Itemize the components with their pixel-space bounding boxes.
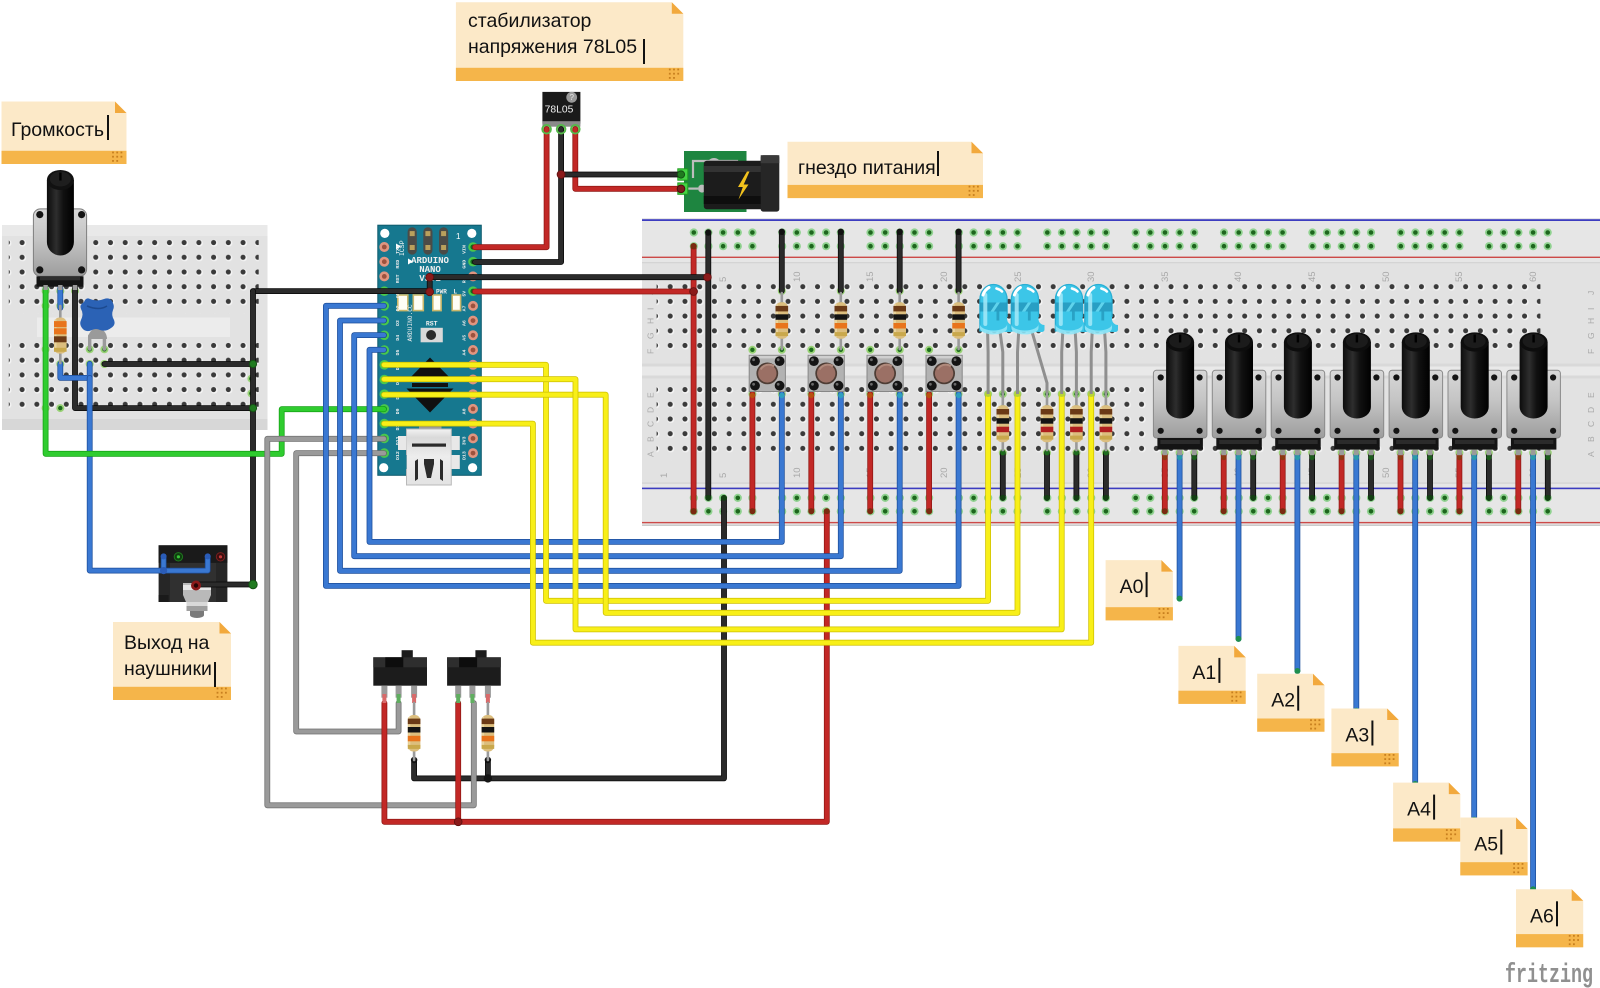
wire D2 to button4 <box>326 306 959 586</box>
wire led1 res to -rail <box>1000 453 1006 498</box>
wire 78L05 gnd to nano GND <box>475 129 561 262</box>
note стабилизатор <box>456 2 683 81</box>
wire tip A3 <box>1353 708 1359 714</box>
wire pot wiper to D9 <box>46 288 384 454</box>
svg-text:25: 25 <box>1013 271 1024 282</box>
svg-text:F: F <box>646 349 656 354</box>
wire 78L05 out to VIN <box>475 129 547 247</box>
LED D1 <box>980 285 1013 395</box>
lead resistor R11 <box>487 703 490 760</box>
resistor R4 <box>893 302 906 338</box>
wire led3 res to -rail <box>1074 453 1080 498</box>
svg-text:VIN: VIN <box>462 245 468 254</box>
wire cap gnd <box>104 361 253 367</box>
wire pot3 wiper to A2 <box>1295 455 1301 671</box>
wire D7 to led3 <box>384 379 1062 629</box>
wire button1 to +rail <box>750 394 756 511</box>
svg-text:D9: D9 <box>395 408 401 414</box>
wire switch2 feed <box>455 703 461 822</box>
wire pot1 wiper to A0 <box>1177 455 1183 599</box>
lead resistor R3 <box>839 293 842 349</box>
svg-text:1: 1 <box>659 473 670 478</box>
svg-text:A0: A0 <box>462 408 468 414</box>
lead resistor R10 <box>413 703 416 760</box>
lead resistor R2 <box>780 293 783 349</box>
wire pot1 pin3 to -rail <box>1191 455 1197 498</box>
wire D6 to led1 <box>384 365 988 601</box>
svg-text:D12: D12 <box>395 451 401 460</box>
wire pot7 wiper to A6 <box>1530 455 1536 889</box>
note A2 <box>1257 674 1324 732</box>
wire pot5 wiper to A4 <box>1412 455 1418 784</box>
wire D8 to led2 <box>384 394 1018 613</box>
svg-text:D13: D13 <box>462 451 468 460</box>
svg-text:RST: RST <box>426 321 438 328</box>
wire switch gnd bus <box>414 498 724 779</box>
wire pot1 pin1 to +rail <box>1162 455 1168 511</box>
jack sleeve ring <box>191 581 201 591</box>
resistor R9 <box>1100 405 1113 442</box>
svg-text:60: 60 <box>1528 271 1539 282</box>
resistor R3 <box>835 302 848 338</box>
wire tip A4 <box>1412 781 1418 787</box>
svg-text:J: J <box>1586 291 1596 295</box>
svg-text:D11: D11 <box>395 436 401 445</box>
note A4 <box>1393 783 1460 842</box>
svg-text:F: F <box>1586 349 1596 354</box>
svg-text:стабилизатор: стабилизатор <box>468 10 592 32</box>
note A1 <box>1178 646 1245 704</box>
wire audio out b <box>164 556 208 570</box>
svg-text:E: E <box>646 392 656 398</box>
svg-text:10: 10 <box>792 467 803 478</box>
svg-text:G: G <box>646 332 656 339</box>
svg-text:A2: A2 <box>1271 690 1295 712</box>
wire 78L05 in from jack <box>575 129 679 189</box>
voltage regulator 78L05 U2 <box>542 92 580 133</box>
wire tip A1 <box>1236 636 1242 642</box>
wire D5 to button1 <box>370 350 782 542</box>
svg-text:A: A <box>1586 451 1596 457</box>
wire pot2 wiper to A1 <box>1236 455 1242 639</box>
board labels <box>646 271 1597 478</box>
potentiometer P1 <box>1153 332 1207 455</box>
svg-text:30: 30 <box>1086 271 1097 282</box>
breadboard main <box>642 218 1600 526</box>
connected holes <box>42 287 1552 457</box>
potentiometer P4 <box>1330 332 1384 455</box>
svg-text:D2: D2 <box>395 305 401 311</box>
svg-text:A4: A4 <box>1407 799 1431 821</box>
svg-text:78L05: 78L05 <box>545 105 574 116</box>
pushbutton S1 <box>749 355 785 391</box>
svg-text:5V: 5V <box>462 291 468 297</box>
svg-text:A7: A7 <box>462 305 468 311</box>
note A3 <box>1331 709 1398 767</box>
LED D4 <box>1085 285 1118 395</box>
slide switch SW1 <box>373 650 427 703</box>
wire tip A2 <box>1294 668 1300 674</box>
resistor R2 <box>776 302 789 338</box>
svg-text:5: 5 <box>718 277 729 282</box>
junction 5V rail <box>690 288 698 296</box>
svg-text:A4: A4 <box>462 350 468 356</box>
svg-text:G: G <box>1586 332 1596 339</box>
wire tips rails <box>542 125 1551 515</box>
wire pot3 pin3 to -rail <box>1309 455 1315 498</box>
fritzing logo <box>1505 961 1593 988</box>
svg-text:B: B <box>646 436 656 442</box>
svg-text:15: 15 <box>865 271 876 282</box>
wire pot4 wiper to A3 <box>1353 455 1359 711</box>
junction gnd bus <box>426 273 711 295</box>
potentiometer P2 <box>1212 332 1266 455</box>
wire pot top blue <box>57 288 63 308</box>
wire pot2 pin1 to +rail <box>1221 455 1227 511</box>
svg-text:H: H <box>1586 318 1596 324</box>
svg-text:45: 45 <box>1307 271 1318 282</box>
svg-text:50: 50 <box>1381 467 1392 478</box>
wire button4 to +rail <box>926 394 932 511</box>
svg-text:20: 20 <box>939 467 950 478</box>
wire pot3 pin1 to +rail <box>1280 455 1286 511</box>
slide switch SW2 <box>447 650 501 703</box>
svg-text:напряжения 78L05: напряжения 78L05 <box>468 36 637 58</box>
svg-text:50: 50 <box>1381 271 1392 282</box>
wire 78L05 gnd to jack <box>561 172 679 178</box>
svg-text:Выход на: Выход на <box>124 632 210 654</box>
wire D11 to switch2 <box>267 439 474 806</box>
note A0 <box>1106 560 1173 620</box>
wire pot4 pin3 to -rail <box>1368 455 1374 498</box>
svg-text:H: H <box>646 318 656 324</box>
svg-text:E: E <box>1586 392 1596 398</box>
power rails holes <box>690 228 1552 515</box>
wire 5V to rail <box>475 289 694 295</box>
lead resistor R5 <box>957 293 960 349</box>
svg-text:RXD: RXD <box>395 260 401 269</box>
potentiometer P6 <box>1448 332 1502 455</box>
svg-text:35: 35 <box>1160 271 1171 282</box>
wire button4 pullcol to -rail <box>956 232 962 291</box>
lead resistor R6 <box>1001 394 1004 450</box>
wire audio out <box>90 378 164 571</box>
headphone jack J2 <box>159 545 228 618</box>
wire pot5 pin3 to -rail <box>1427 455 1433 498</box>
wire rail jumper black <box>705 233 711 498</box>
wire switch2 gnd stub <box>485 760 491 778</box>
svg-text:A5: A5 <box>462 335 468 341</box>
breadboard small <box>2 225 268 430</box>
resistor R10 <box>408 715 421 752</box>
note Выход на наушники <box>113 622 231 700</box>
resistor R11 <box>482 715 495 752</box>
svg-text:ARDUINO.CC: ARDUINO.CC <box>407 304 414 341</box>
wire pot2 pin3 to -rail <box>1250 455 1256 498</box>
svg-text:A6: A6 <box>1530 905 1554 927</box>
lead resistor R4 <box>898 293 901 349</box>
svg-text:A6: A6 <box>462 320 468 326</box>
wire D3 to button3 <box>340 321 900 571</box>
svg-text:40: 40 <box>1233 271 1244 282</box>
svg-text:A1: A1 <box>1192 662 1216 684</box>
wire button3 to +rail <box>867 394 873 511</box>
capacitor C1 <box>80 298 114 349</box>
note гнездо питания <box>788 142 984 198</box>
potentiometer VOLUME <box>33 170 86 290</box>
wire pot6 wiper to A5 <box>1471 455 1477 820</box>
wire GND bus to rail <box>253 277 707 291</box>
svg-text:A5: A5 <box>1474 834 1498 856</box>
junction 78L05 gnd <box>557 171 685 179</box>
pushbutton S4 <box>926 355 962 391</box>
wire D4 to button2 <box>354 335 841 556</box>
resistor R7 <box>1041 405 1054 442</box>
svg-text:3V3: 3V3 <box>462 436 468 445</box>
pushbutton S2 <box>808 355 844 391</box>
svg-text:Громкость: Громкость <box>11 119 104 141</box>
Arduino Nano U1 <box>378 225 482 485</box>
potentiometer P3 <box>1271 332 1325 455</box>
svg-text:I: I <box>1586 308 1596 310</box>
LED D3 <box>1055 285 1088 395</box>
wire pot4 pin1 to +rail <box>1339 455 1345 511</box>
svg-text:55: 55 <box>1454 271 1465 282</box>
wire D12 to switch1 <box>296 453 398 731</box>
wire button3 pullcol to -rail <box>897 232 903 291</box>
resistor R5 <box>952 302 965 338</box>
wire rail jumper red <box>691 246 697 511</box>
wire button2 pullcol to -rail <box>838 232 844 291</box>
svg-text:20: 20 <box>939 271 950 282</box>
lead resistor R8 <box>1075 394 1078 450</box>
wire led4 res to -rail <box>1103 453 1109 498</box>
wire tip A6 <box>1530 886 1536 892</box>
svg-text:5: 5 <box>718 473 729 478</box>
lead resistor R7 <box>1046 394 1049 450</box>
resistor R6 <box>997 405 1010 442</box>
junction jack red <box>677 185 685 193</box>
wire tip A5 <box>1471 817 1477 823</box>
svg-text:C: C <box>646 421 656 427</box>
svg-text:D: D <box>646 407 656 413</box>
pushbutton S3 <box>867 355 903 391</box>
wire pot5 pin1 to +rail <box>1398 455 1404 511</box>
svg-text:наушники: наушники <box>124 658 212 680</box>
wire vol divider <box>60 364 89 378</box>
wire tip A0 <box>1177 596 1183 602</box>
potentiometer P5 <box>1389 332 1443 455</box>
resistor R1 <box>54 318 67 354</box>
wire pot7 pin1 to +rail <box>1515 455 1521 511</box>
wire small board gnd drop <box>196 291 253 584</box>
svg-text:D5: D5 <box>395 350 401 356</box>
svg-text:I: I <box>646 308 656 310</box>
svg-text:A3: A3 <box>1345 725 1369 747</box>
note A5 <box>1460 818 1527 876</box>
wire button2 to +rail <box>808 394 814 511</box>
junction switch gnd <box>411 757 492 783</box>
svg-text:A: A <box>646 451 656 457</box>
wire pot7 pin3 to -rail <box>1545 455 1551 498</box>
svg-text:TX1: TX1 <box>395 245 401 254</box>
note Громкость <box>2 102 127 165</box>
svg-text:гнездо питания: гнездо питания <box>798 157 936 179</box>
wire pot6 pin3 to -rail <box>1486 455 1492 498</box>
junction smallboard <box>249 360 257 588</box>
lead resistor R9 <box>1105 394 1108 450</box>
svg-text:D4: D4 <box>395 335 401 341</box>
svg-text:B: B <box>1586 436 1596 442</box>
svg-text:C: C <box>1586 421 1596 427</box>
wire led2 res to -rail <box>1044 453 1050 498</box>
note A6 <box>1516 889 1583 947</box>
svg-text:D: D <box>1586 407 1596 413</box>
svg-text:GND: GND <box>462 260 468 269</box>
wire pot6 pin1 to +rail <box>1457 455 1463 511</box>
wire D10 to led4 <box>384 394 1091 643</box>
svg-text:D3: D3 <box>395 320 401 326</box>
power jack J1 <box>678 151 780 212</box>
svg-text:fritzing: fritzing <box>1505 961 1593 988</box>
svg-text:1: 1 <box>456 232 461 241</box>
wire button1 pullcol to -rail <box>779 232 785 291</box>
potentiometer P7 <box>1507 332 1561 455</box>
wire switch1 feed <box>384 511 826 822</box>
junction audio <box>160 553 211 574</box>
svg-text:?: ? <box>569 93 574 102</box>
junction switch red <box>454 818 462 826</box>
svg-text:A0: A0 <box>1120 576 1144 598</box>
LED D2 <box>1011 285 1047 395</box>
svg-text:10: 10 <box>792 271 803 282</box>
lead resistor R1 <box>59 306 62 363</box>
resistor R8 <box>1070 405 1083 442</box>
wire pot3 gnd <box>75 288 253 408</box>
svg-text:RST: RST <box>395 274 401 283</box>
